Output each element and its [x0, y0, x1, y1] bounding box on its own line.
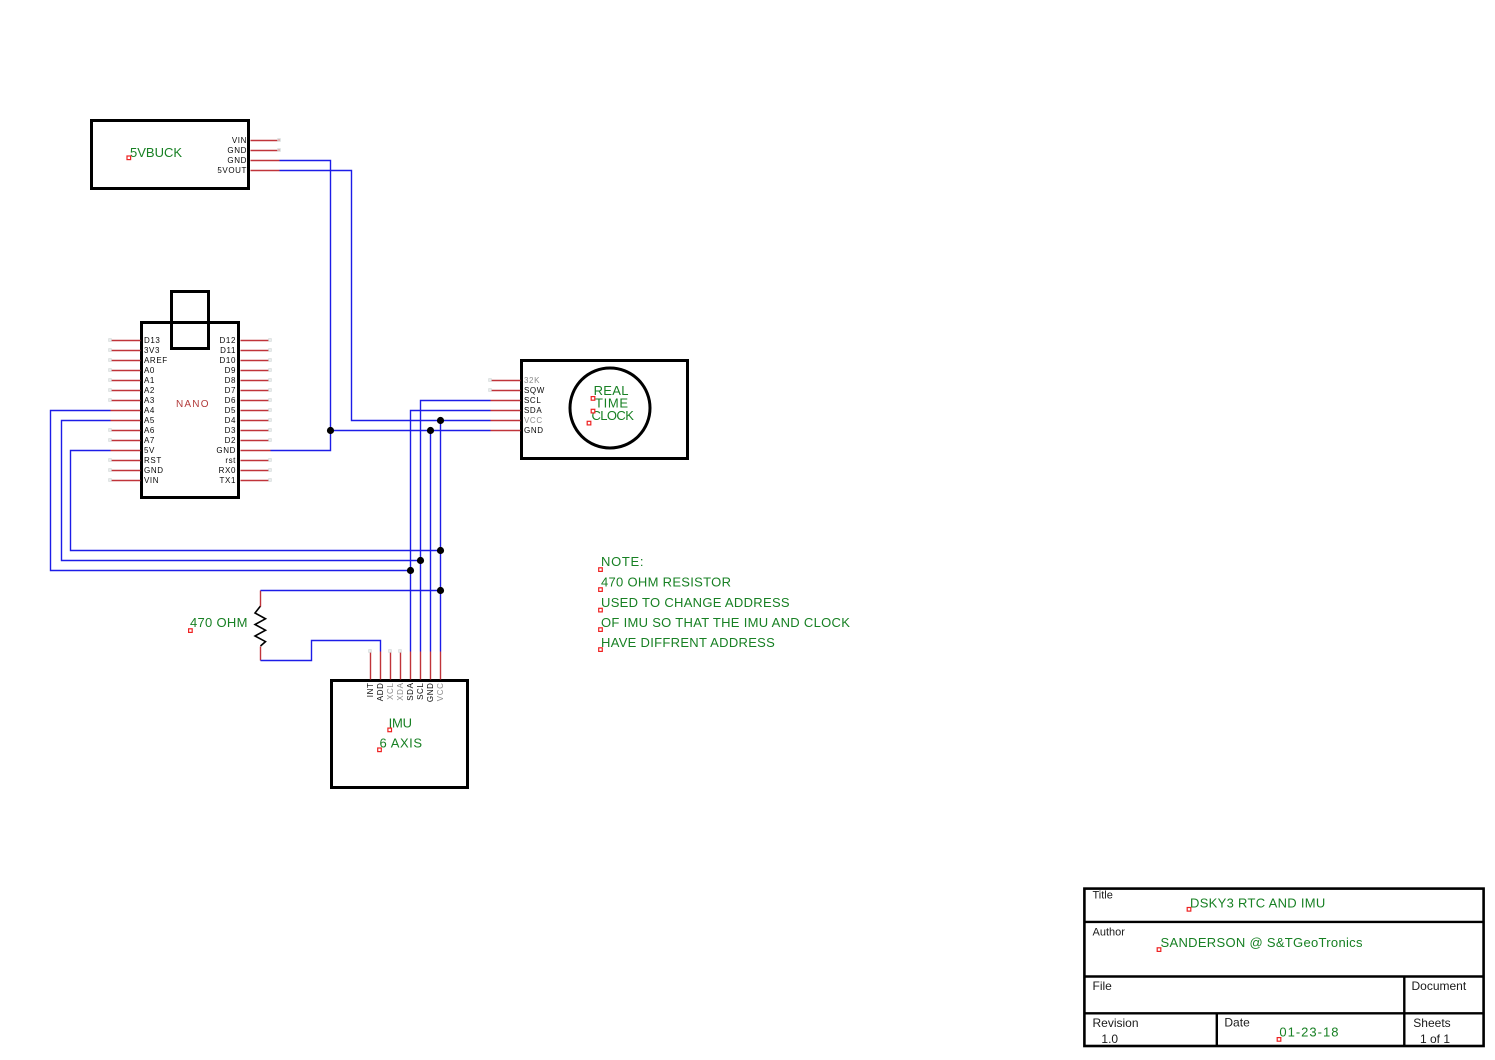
svg-text:D12: D12 — [220, 336, 236, 345]
svg-text:A4: A4 — [144, 406, 155, 415]
svg-text:CLOCK: CLOCK — [592, 408, 635, 423]
svg-text:470 OHM: 470 OHM — [190, 615, 248, 630]
IMU origin markers — [378, 728, 392, 752]
RTC pins — [491, 381, 521, 431]
svg-text:GND: GND — [426, 683, 435, 703]
svg-text:Date: Date — [1224, 1016, 1250, 1030]
junction E (SCL at 420,560) — [417, 557, 424, 564]
svg-text:D10: D10 — [220, 356, 236, 365]
NANO free pin end markers — [109, 339, 272, 482]
wire resistor top to VCC net — [261, 590, 441, 592]
date origin marker — [1277, 1038, 1281, 1042]
5VBUCK module box — [92, 121, 249, 189]
author origin marker — [1157, 948, 1161, 952]
svg-text:SDA: SDA — [406, 682, 415, 700]
svg-text:INT: INT — [366, 683, 375, 698]
svg-text:SANDERSON @ S&TGeoTronics: SANDERSON @ S&TGeoTronics — [1161, 935, 1363, 950]
wire NANO GND to junction A — [271, 431, 331, 451]
svg-text:ADD: ADD — [376, 683, 385, 702]
svg-text:VCC: VCC — [436, 683, 445, 702]
svg-text:D11: D11 — [220, 346, 236, 355]
svg-text:A3: A3 — [144, 396, 155, 405]
svg-text:SCL: SCL — [524, 396, 541, 405]
svg-text:Sheets: Sheets — [1413, 1016, 1450, 1030]
svg-text:5V: 5V — [144, 446, 155, 455]
wire NANO 5V to VCC net — [71, 451, 441, 551]
svg-text:D5: D5 — [225, 406, 236, 415]
svg-text:Author: Author — [1093, 927, 1126, 939]
svg-text:D4: D4 — [225, 416, 236, 425]
svg-text:Title: Title — [1093, 890, 1113, 902]
NANO usb connector box — [172, 292, 209, 349]
RTC pin labels — [524, 376, 545, 435]
5VBUCK pin GND1 — [251, 150, 280, 152]
svg-text:GND: GND — [227, 146, 247, 155]
svg-text:5VOUT: 5VOUT — [217, 166, 247, 175]
wire NANO A4 to SDA net — [51, 411, 411, 571]
wire GND horizontal to RTC GND — [331, 430, 491, 432]
RTC battery circle — [570, 368, 650, 448]
svg-text:RST: RST — [144, 456, 162, 465]
svg-text:VCC: VCC — [524, 416, 543, 425]
NANO right pins D12..TX1 — [241, 341, 271, 481]
IMU value label — [380, 716, 423, 751]
note text — [601, 554, 850, 650]
RTC free pin end markers — [489, 379, 492, 392]
svg-text:A2: A2 — [144, 386, 155, 395]
svg-text:RX0: RX0 — [219, 466, 236, 475]
svg-text:3V3: 3V3 — [144, 346, 160, 355]
5VBUCK pin labels — [217, 136, 247, 175]
svg-text:GND: GND — [524, 426, 544, 435]
svg-text:6 AXIS: 6 AXIS — [380, 736, 423, 751]
IMU free pin end markers — [369, 650, 402, 653]
svg-text:DSKY3 RTC AND IMU: DSKY3 RTC AND IMU — [1190, 896, 1326, 911]
svg-text:File: File — [1093, 979, 1113, 993]
5VBUCK pin 5VOUT — [251, 170, 280, 172]
svg-text:GND: GND — [144, 466, 164, 475]
wire RTC SDA down to IMU SDA — [411, 411, 491, 652]
svg-text:SQW: SQW — [524, 386, 545, 395]
svg-text:5VBUCK: 5VBUCK — [130, 145, 182, 160]
svg-text:TX1: TX1 — [220, 476, 236, 485]
svg-text:D2: D2 — [225, 436, 236, 445]
wire RTC SCL down to IMU SCL — [421, 401, 491, 652]
svg-text:VIN: VIN — [144, 476, 159, 485]
svg-text:A7: A7 — [144, 436, 155, 445]
NANO module box — [142, 323, 239, 498]
wire resistor bottom to IMU ADD — [261, 641, 381, 661]
svg-text:D8: D8 — [225, 376, 236, 385]
svg-text:Document: Document — [1412, 979, 1467, 993]
wire 5VBUCK GND2 to junction A — [280, 161, 331, 431]
junction G (resistor / VCC at 440,590) — [437, 587, 444, 594]
svg-text:D7: D7 — [225, 386, 236, 395]
wire GND branch down to IMU GND — [430, 431, 432, 652]
resistor R1 origin marker — [189, 629, 193, 633]
svg-text:D13: D13 — [144, 336, 160, 345]
svg-text:VIN: VIN — [232, 136, 247, 145]
svg-text:A5: A5 — [144, 416, 155, 425]
svg-text:A6: A6 — [144, 426, 155, 435]
5VBUCK pin GND2 — [251, 160, 280, 162]
wire VCC branch down to IMU VCC — [440, 421, 442, 652]
svg-text:D3: D3 — [225, 426, 236, 435]
NANO left pins D13..VIN — [111, 341, 141, 481]
junction F (SDA at 410,570) — [407, 567, 414, 574]
svg-text:32K: 32K — [524, 376, 540, 385]
5VBUCK value label — [130, 145, 182, 160]
svg-text:AREF: AREF — [144, 356, 168, 365]
wire 5VBUCK 5VOUT to RTC VCC — [280, 171, 491, 421]
junction C (GND at 430,430) — [427, 427, 434, 434]
svg-text:NANO: NANO — [176, 399, 210, 410]
5VBUCK origin marker — [127, 156, 131, 160]
svg-text:OF IMU SO THAT THE IMU AND CLO: OF IMU SO THAT THE IMU AND CLOCK — [601, 615, 850, 630]
title text — [1190, 896, 1326, 911]
svg-text:GND: GND — [216, 446, 236, 455]
svg-text:SCL: SCL — [416, 683, 425, 700]
RTC value label REAL TIME CLOCK — [592, 383, 635, 423]
resistor R1 pin stubs — [260, 591, 262, 661]
author text — [1161, 935, 1363, 950]
5VBUCK free pin end markers — [278, 139, 281, 152]
svg-text:470 OHM RESISTOR: 470 OHM RESISTOR — [601, 575, 731, 590]
svg-text:XDA: XDA — [396, 682, 405, 700]
svg-text:D9: D9 — [225, 366, 236, 375]
IMU module box — [332, 681, 468, 788]
title block field labels — [1093, 890, 1467, 1046]
title origin marker — [1187, 908, 1191, 912]
junction B (VCC at 440,420) — [437, 417, 444, 424]
IMU pins — [371, 652, 441, 680]
svg-text:HAVE DIFFRENT ADDRESS: HAVE DIFFRENT ADDRESS — [601, 635, 775, 650]
5VBUCK pin VIN — [251, 140, 280, 142]
svg-text:01-23-18: 01-23-18 — [1279, 1025, 1339, 1040]
svg-text:GND: GND — [227, 156, 247, 165]
IMU pin labels (rotated) — [366, 682, 445, 702]
NANO right pin labels — [216, 336, 236, 485]
svg-text:Revision: Revision — [1093, 1016, 1139, 1030]
svg-text:USED TO CHANGE ADDRESS: USED TO CHANGE ADDRESS — [601, 595, 790, 610]
RTC module box — [522, 361, 688, 459]
svg-text:SDA: SDA — [524, 406, 542, 415]
wire NANO A5 to SCL net — [62, 421, 421, 561]
junction A (GND at 330,430) — [327, 427, 334, 434]
title block frame — [1084, 889, 1483, 1046]
svg-text:1 of 1: 1 of 1 — [1420, 1032, 1450, 1046]
RTC origin markers — [587, 397, 595, 425]
svg-text:A1: A1 — [144, 376, 155, 385]
svg-text:1.0: 1.0 — [1101, 1032, 1118, 1046]
NANO part name — [176, 399, 210, 410]
note origin markers — [599, 568, 603, 652]
date text — [1279, 1025, 1339, 1040]
svg-text:rst: rst — [225, 456, 236, 465]
resistor R1 value label — [190, 615, 248, 630]
NANO left pin labels — [144, 336, 168, 485]
svg-text:D6: D6 — [225, 396, 236, 405]
svg-text:A0: A0 — [144, 366, 155, 375]
svg-text:XCL: XCL — [386, 683, 395, 700]
junction D (VCC / 5V at 440,550) — [437, 547, 444, 554]
resistor R1 470 OHM zigzag — [255, 606, 266, 646]
svg-text:NOTE:: NOTE: — [601, 554, 644, 569]
